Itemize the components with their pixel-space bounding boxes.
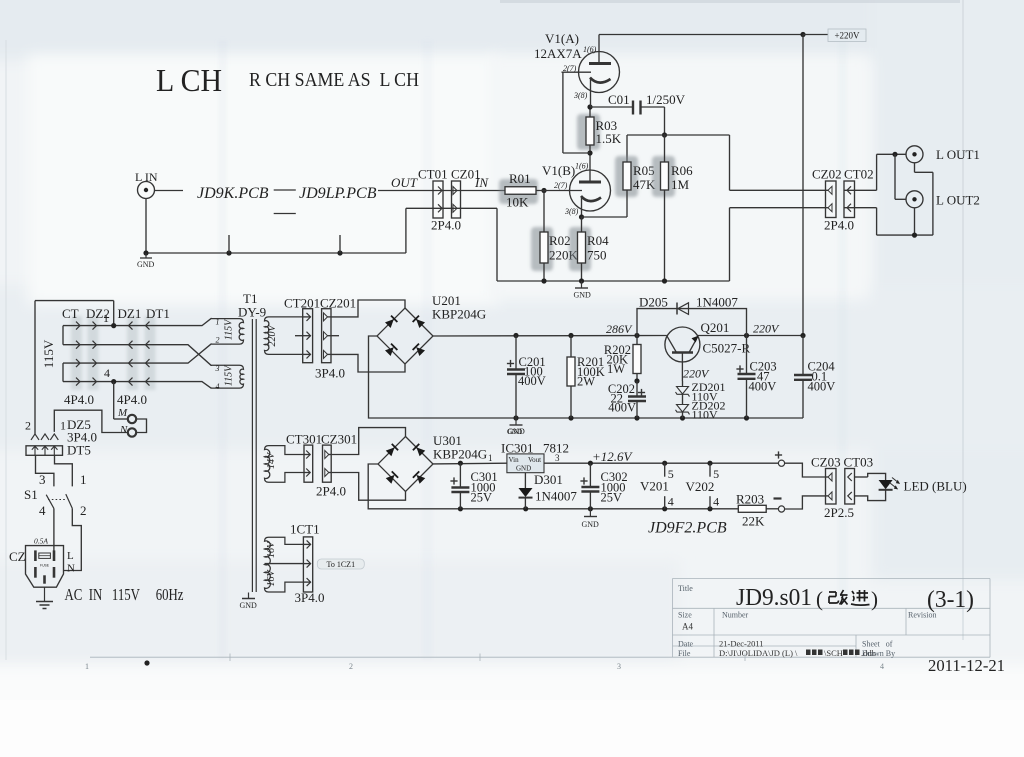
svg-text:1(6): 1(6): [583, 45, 597, 54]
svg-text:1.5K: 1.5K: [596, 131, 622, 146]
svg-text:R04: R04: [587, 233, 609, 248]
svg-text:GND: GND: [574, 291, 592, 300]
svg-text:(: (: [816, 587, 823, 611]
svg-text:GND: GND: [240, 601, 258, 610]
svg-text:C5027-R: C5027-R: [703, 341, 751, 356]
svg-text:To 1CZ1: To 1CZ1: [327, 560, 356, 569]
svg-text:A4: A4: [682, 622, 693, 632]
svg-text:115V: 115V: [224, 364, 235, 386]
svg-text:4P4.0: 4P4.0: [117, 392, 147, 407]
svg-text:1: 1: [103, 311, 109, 325]
svg-text:2: 2: [349, 662, 353, 671]
svg-text:Vout: Vout: [528, 456, 541, 464]
svg-text:IN: IN: [474, 175, 489, 190]
svg-text:25V: 25V: [471, 491, 493, 505]
svg-text:\SCH: \SCH: [824, 648, 843, 658]
svg-text:DT5: DT5: [67, 443, 91, 458]
svg-text:CT: CT: [62, 306, 79, 321]
svg-text:1: 1: [488, 453, 493, 463]
svg-text:JD9K.PCB: JD9K.PCB: [197, 185, 269, 202]
svg-text:CT01: CT01: [418, 167, 448, 182]
svg-text:JD9F2.PCB: JD9F2.PCB: [648, 520, 727, 537]
svg-text:1: 1: [60, 419, 66, 433]
svg-text:21-Dec-2011: 21-Dec-2011: [719, 639, 764, 649]
svg-text:LED (BLU): LED (BLU): [904, 479, 967, 494]
svg-text:Q201: Q201: [701, 320, 730, 335]
svg-text:JD9LP.PCB: JD9LP.PCB: [299, 185, 377, 202]
svg-text:DY-9: DY-9: [238, 305, 266, 320]
svg-text:10K: 10K: [506, 195, 529, 210]
svg-text:(3-1): (3-1): [927, 587, 974, 613]
svg-text:L CH: L CH: [156, 62, 222, 98]
svg-text:1/250V: 1/250V: [646, 92, 686, 107]
svg-text:IC301: IC301: [501, 441, 534, 456]
svg-text:22K: 22K: [742, 514, 765, 529]
svg-text:2P2.5: 2P2.5: [824, 505, 854, 520]
svg-text:Title: Title: [678, 584, 693, 593]
svg-text:DZ1: DZ1: [118, 306, 142, 321]
svg-text:1N4007: 1N4007: [535, 489, 577, 504]
svg-text:R203: R203: [736, 492, 764, 507]
svg-text:R02: R02: [549, 233, 571, 248]
svg-text:4P4.0: 4P4.0: [64, 392, 94, 407]
svg-text:GND: GND: [507, 428, 522, 436]
svg-text:D301: D301: [534, 472, 563, 487]
svg-text:L OUT2: L OUT2: [936, 193, 980, 208]
svg-text:3(8): 3(8): [564, 207, 579, 216]
svg-text:C01: C01: [608, 92, 630, 107]
svg-text:2P4.0: 2P4.0: [431, 218, 461, 233]
svg-text:L OUT1: L OUT1: [936, 147, 980, 162]
svg-text:220V: 220V: [683, 367, 710, 381]
svg-text:Size: Size: [678, 611, 692, 620]
svg-text:V202: V202: [686, 479, 715, 494]
svg-text:115V: 115V: [41, 339, 56, 368]
svg-text:1: 1: [216, 317, 220, 326]
svg-text:+12.6V: +12.6V: [592, 449, 634, 464]
svg-text:Drawn By: Drawn By: [862, 649, 895, 658]
svg-text:S1: S1: [24, 487, 38, 502]
svg-text:D205: D205: [639, 295, 668, 310]
svg-text:400V: 400V: [749, 380, 777, 394]
svg-text:400V: 400V: [608, 401, 636, 415]
svg-text:CT03: CT03: [844, 455, 874, 470]
svg-text:16V: 16V: [266, 540, 277, 558]
svg-text:2P4.0: 2P4.0: [316, 484, 346, 499]
svg-text:N: N: [119, 424, 128, 436]
svg-text:FUSE: FUSE: [40, 564, 50, 568]
svg-text:JD9.s01: JD9.s01: [736, 585, 812, 611]
svg-text:4: 4: [713, 495, 719, 509]
svg-text:1N4007: 1N4007: [696, 295, 738, 310]
svg-text:4: 4: [216, 382, 220, 391]
svg-text:KBP204G: KBP204G: [433, 447, 487, 462]
svg-text:DT1: DT1: [146, 306, 170, 321]
svg-text:GND: GND: [516, 465, 531, 473]
svg-text:File: File: [678, 649, 691, 658]
svg-text:Number: Number: [722, 611, 749, 620]
svg-text:R CH SAME AS L CH: R CH SAME AS L CH: [249, 69, 419, 91]
svg-text:CT02: CT02: [844, 167, 874, 182]
svg-text:286V: 286V: [606, 322, 633, 336]
svg-text:400V: 400V: [808, 380, 836, 394]
svg-text:4: 4: [39, 503, 46, 518]
svg-text:3: 3: [215, 364, 220, 373]
svg-text:CT301: CT301: [286, 432, 322, 447]
svg-text:16V: 16V: [266, 569, 277, 587]
svg-text:2P4.0: 2P4.0: [824, 218, 854, 233]
svg-text:2W: 2W: [577, 375, 595, 389]
svg-text:R05: R05: [633, 163, 655, 178]
svg-text:CZ02: CZ02: [812, 167, 842, 182]
svg-text:2011-12-21: 2011-12-21: [928, 656, 1005, 675]
svg-text:220V: 220V: [267, 324, 278, 347]
svg-text:CZ301: CZ301: [321, 432, 357, 447]
svg-text:25V: 25V: [601, 491, 623, 505]
svg-text:1W: 1W: [607, 362, 625, 376]
svg-text:+220V: +220V: [834, 31, 860, 41]
svg-text:Revision: Revision: [908, 611, 936, 620]
svg-text:400V: 400V: [518, 374, 546, 388]
svg-text:2: 2: [25, 419, 31, 433]
svg-text:Vin: Vin: [509, 456, 520, 464]
svg-text:Date: Date: [678, 640, 694, 649]
svg-text:KBP204G: KBP204G: [432, 307, 486, 322]
svg-text:CZ03: CZ03: [811, 455, 841, 470]
svg-text:R01: R01: [509, 171, 531, 186]
svg-text:V201: V201: [640, 479, 669, 494]
svg-text:3: 3: [617, 662, 621, 671]
svg-text:4: 4: [668, 495, 674, 509]
svg-text:7812: 7812: [543, 441, 569, 456]
svg-text:GND: GND: [582, 520, 600, 529]
svg-text:N: N: [67, 563, 75, 575]
svg-text:1M: 1M: [671, 177, 690, 192]
svg-text:2: 2: [80, 503, 87, 518]
svg-text:V1(A): V1(A): [545, 31, 579, 46]
svg-text:115V: 115V: [224, 318, 235, 340]
svg-text:3: 3: [39, 472, 46, 487]
svg-text:0.5A: 0.5A: [34, 537, 48, 546]
svg-text:3P4.0: 3P4.0: [315, 366, 345, 381]
svg-text:1: 1: [85, 662, 89, 671]
svg-text:3(8): 3(8): [573, 91, 588, 100]
svg-text:CZ: CZ: [9, 549, 26, 564]
svg-text:1: 1: [80, 472, 87, 487]
svg-text:4: 4: [880, 662, 884, 671]
svg-text:): ): [871, 587, 878, 611]
svg-text:750: 750: [587, 248, 607, 263]
svg-text:110V: 110V: [692, 408, 719, 422]
svg-text:4: 4: [104, 366, 110, 380]
svg-text:1(6): 1(6): [575, 162, 589, 171]
svg-text:GND: GND: [137, 260, 155, 269]
svg-text:12AX7A: 12AX7A: [534, 46, 582, 61]
svg-text:1CT1: 1CT1: [290, 522, 320, 537]
svg-text:R06: R06: [671, 163, 693, 178]
svg-text:3P4.0: 3P4.0: [295, 590, 325, 605]
svg-text:OUT: OUT: [391, 175, 418, 190]
svg-text:220V: 220V: [753, 322, 780, 336]
svg-text:14V: 14V: [266, 451, 277, 469]
svg-text:M: M: [117, 407, 128, 419]
svg-text:V1(B): V1(B): [542, 163, 575, 178]
svg-text:2(7): 2(7): [554, 181, 568, 190]
svg-text:L: L: [67, 550, 74, 562]
svg-text:D:\JI\JOLIDA\JD (L) \: D:\JI\JOLIDA\JD (L) \: [719, 648, 798, 658]
svg-text:AC IN 115V 60Hz: AC IN 115V 60Hz: [65, 585, 184, 604]
svg-text:2: 2: [216, 336, 220, 345]
